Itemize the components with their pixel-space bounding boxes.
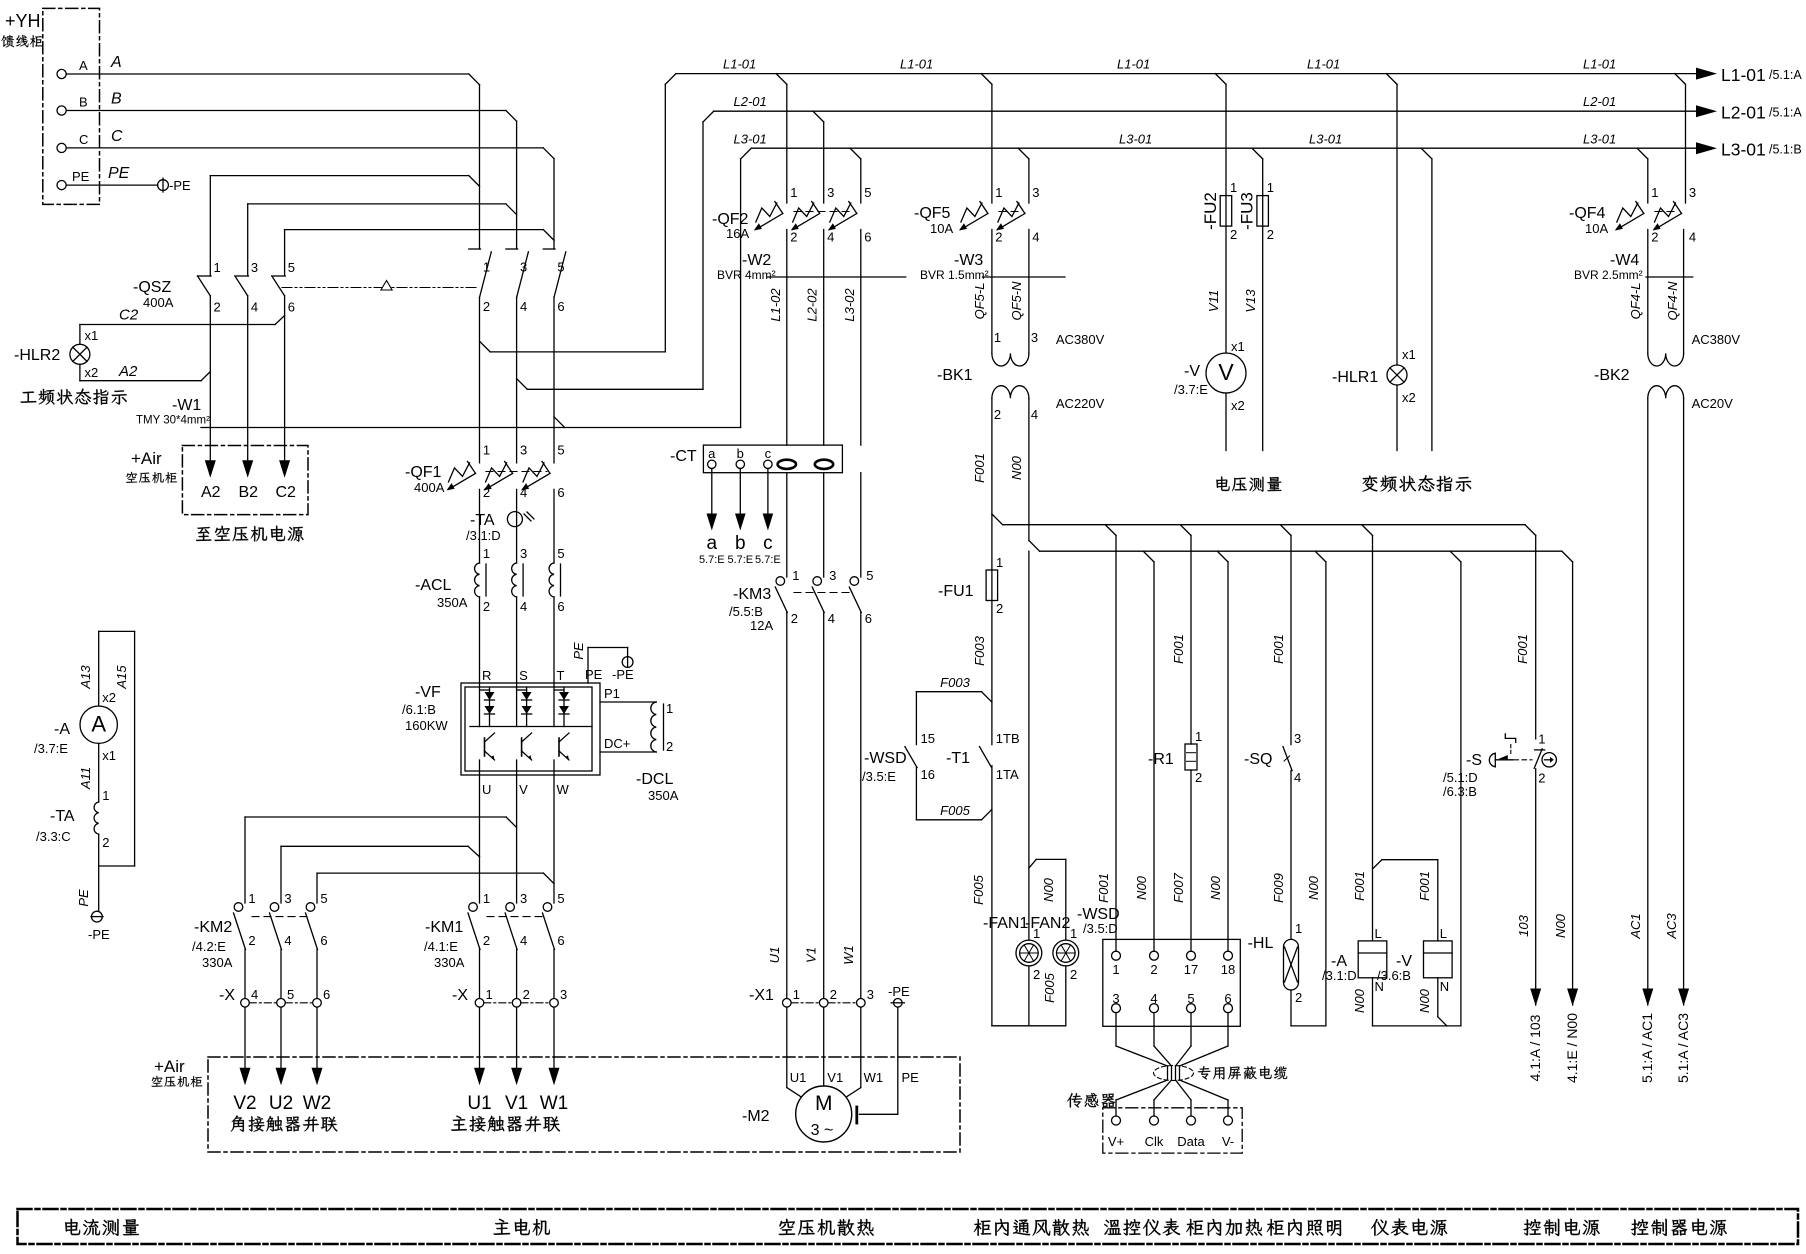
svg-text:4: 4 [284,933,291,948]
svg-text:5: 5 [557,891,564,906]
svg-text:A: A [110,54,122,71]
svg-text:-W4: -W4 [1610,252,1639,269]
svg-text:-A: -A [54,721,70,738]
svg-text:4: 4 [828,611,835,626]
svg-text:QF5-N: QF5-N [1009,281,1024,321]
svg-text:L1-01: L1-01 [1583,57,1616,72]
svg-text:3: 3 [1032,185,1039,200]
svg-text:F001: F001 [1515,634,1530,664]
svg-text:c: c [765,446,772,461]
svg-text:2: 2 [1538,770,1545,785]
svg-text:U1: U1 [790,1070,807,1085]
svg-text:QF4-L: QF4-L [1628,283,1643,320]
svg-text:-KM1: -KM1 [425,919,463,936]
svg-text:/3.5:E: /3.5:E [862,769,896,784]
svg-text:QF5-L: QF5-L [972,283,987,320]
svg-text:AC380V: AC380V [1692,332,1741,347]
svg-text:AC20V: AC20V [1692,396,1734,411]
svg-text:6: 6 [1224,991,1231,1006]
svg-text:b: b [737,446,744,461]
svg-text:17: 17 [1184,962,1198,977]
svg-text:W1: W1 [841,945,856,965]
svg-text:F001: F001 [1096,873,1111,903]
svg-text:3: 3 [284,891,291,906]
svg-text:1: 1 [996,555,1003,570]
svg-text:F001: F001 [1352,871,1367,901]
svg-text:5.7:E: 5.7:E [755,554,781,566]
svg-text:/6.3:B: /6.3:B [1443,784,1477,799]
svg-text:F001: F001 [972,453,987,483]
svg-text:-PE: -PE [169,178,191,193]
svg-text:1: 1 [1070,926,1077,941]
svg-text:2: 2 [483,299,490,314]
svg-text:1: 1 [792,568,799,583]
svg-text:BVR 4mm²: BVR 4mm² [717,268,776,282]
svg-text:L1-01: L1-01 [1117,57,1150,72]
svg-text:PE: PE [72,169,90,184]
svg-text:2: 2 [1033,967,1040,982]
svg-text:3: 3 [1294,731,1301,746]
svg-text:AC1: AC1 [1628,913,1643,939]
svg-text:+YH: +YH [5,11,41,31]
svg-text:b: b [735,533,746,554]
svg-text:-QSZ: -QSZ [133,279,171,296]
svg-text:2: 2 [996,601,1003,616]
svg-text:6: 6 [557,599,564,614]
svg-text:3: 3 [251,260,258,275]
svg-text:4: 4 [1032,230,1039,245]
svg-text:4: 4 [520,599,527,614]
svg-text:V11: V11 [1206,290,1221,312]
svg-text:-BK1: -BK1 [937,367,973,384]
svg-text:x1: x1 [1231,339,1245,354]
svg-text:400A: 400A [143,295,174,310]
svg-text:P1: P1 [604,686,620,701]
svg-text:3 ~: 3 ~ [811,1122,834,1139]
svg-text:F003: F003 [972,635,987,665]
svg-text:/4.2:E: /4.2:E [192,939,226,954]
svg-text:L1-01: L1-01 [900,57,933,72]
svg-text:F001: F001 [1171,634,1186,664]
svg-text:L: L [1440,926,1447,941]
svg-text:B: B [111,91,122,108]
svg-text:-X: -X [219,987,235,1004]
svg-text:F001: F001 [1271,634,1286,664]
svg-text:2: 2 [214,300,221,315]
svg-text:-QF5: -QF5 [914,205,951,222]
svg-text:18: 18 [1221,962,1235,977]
svg-text:4.1:E / N00: 4.1:E / N00 [1564,1013,1580,1083]
svg-text:L1-01: L1-01 [1307,57,1340,72]
svg-text:-QF4: -QF4 [1569,205,1606,222]
svg-text:1TA: 1TA [996,767,1019,782]
svg-text:L3-01: L3-01 [1309,132,1342,147]
svg-text:Clk: Clk [1145,1134,1164,1149]
svg-text:4: 4 [827,230,834,245]
svg-text:L3-01: L3-01 [1583,132,1616,147]
svg-text:4: 4 [1150,991,1157,1006]
svg-text:-W3: -W3 [954,252,983,269]
svg-text:10A: 10A [1585,221,1608,236]
svg-text:N00: N00 [1352,988,1367,1013]
svg-text:2: 2 [790,230,797,245]
svg-text:C2: C2 [119,307,139,324]
svg-text:1: 1 [1230,180,1237,195]
svg-text:/3.7:E: /3.7:E [34,741,68,756]
svg-text:A15: A15 [114,665,129,690]
svg-text:L1-01: L1-01 [723,57,756,72]
svg-text:6: 6 [557,485,564,500]
svg-text:F005: F005 [940,803,970,818]
svg-text:C: C [79,132,88,147]
svg-text:-SQ: -SQ [1244,751,1272,768]
svg-text:-QF1: -QF1 [405,464,442,481]
svg-text:-ACL: -ACL [415,577,452,594]
svg-text:A2: A2 [118,363,138,380]
svg-text:4: 4 [1294,770,1301,785]
svg-text:N00: N00 [1208,875,1223,900]
svg-text:1: 1 [214,260,221,275]
svg-text:5: 5 [288,260,295,275]
svg-text:N00: N00 [1041,877,1056,902]
svg-text:PE: PE [902,1070,920,1085]
svg-text:5: 5 [287,987,294,1002]
svg-text:-FU1: -FU1 [938,583,974,600]
svg-text:PE: PE [76,889,91,907]
svg-text:1: 1 [793,987,800,1002]
svg-text:B: B [79,95,88,110]
svg-text:AC220V: AC220V [1056,396,1105,411]
svg-text:3: 3 [827,185,834,200]
svg-text:5.7:E: 5.7:E [699,554,725,566]
svg-text:/5.1:A: /5.1:A [1769,68,1802,82]
svg-text:L2-01: L2-01 [1721,103,1766,123]
svg-text:-T1: -T1 [946,750,970,767]
svg-text:5.1:A / AC1: 5.1:A / AC1 [1639,1013,1655,1083]
svg-text:4: 4 [1031,407,1038,422]
svg-text:1: 1 [790,185,797,200]
svg-text:1: 1 [102,788,109,803]
svg-text:x2: x2 [1231,398,1245,413]
svg-text:QF4-N: QF4-N [1665,281,1680,321]
svg-text:-S: -S [1466,752,1482,769]
svg-text:330A: 330A [434,955,465,970]
svg-text:2: 2 [791,611,798,626]
svg-text:U: U [482,782,491,797]
svg-text:-TA: -TA [470,512,495,529]
svg-text:L: L [1375,926,1382,941]
svg-text:/3.7:E: /3.7:E [1174,382,1208,397]
svg-text:-PE: -PE [88,927,110,942]
svg-text:4: 4 [251,987,258,1002]
svg-text:PE: PE [571,642,586,660]
svg-text:-X: -X [452,987,468,1004]
svg-text:-M2: -M2 [742,1108,770,1125]
svg-text:x1: x1 [102,748,116,763]
svg-text:160KW: 160KW [405,718,448,733]
svg-text:1: 1 [1295,921,1302,936]
svg-text:x1: x1 [1402,347,1416,362]
svg-text:-X1: -X1 [749,987,774,1004]
svg-text:2: 2 [1195,770,1202,785]
svg-text:N00: N00 [1306,875,1321,900]
svg-text:5: 5 [866,568,873,583]
svg-text:6: 6 [864,230,871,245]
svg-text:U1: U1 [767,947,782,964]
svg-text:2: 2 [1295,990,1302,1005]
svg-text:3: 3 [1031,330,1038,345]
svg-text:1: 1 [1538,731,1545,746]
svg-text:5: 5 [557,546,564,561]
svg-text:-PE: -PE [612,667,634,682]
svg-text:5: 5 [557,443,564,458]
svg-text:2: 2 [1070,967,1077,982]
svg-text:B2: B2 [239,484,259,501]
svg-text:10A: 10A [930,221,953,236]
svg-text:1: 1 [1112,962,1119,977]
svg-text:1: 1 [994,330,1001,345]
svg-text:2: 2 [830,987,837,1002]
svg-text:W: W [557,782,570,797]
svg-text:-HLR2: -HLR2 [14,347,60,364]
svg-text:6: 6 [288,300,295,315]
svg-text:-WSD: -WSD [864,750,907,767]
svg-text:Data: Data [1177,1134,1205,1149]
svg-text:+Air: +Air [154,1057,185,1076]
svg-text:3: 3 [560,987,567,1002]
svg-text:-FAN1: -FAN1 [983,915,1028,932]
svg-text:M: M [815,1092,833,1115]
svg-text:N00: N00 [1009,455,1024,480]
svg-text:1: 1 [483,443,490,458]
svg-text:-V: -V [1184,363,1200,380]
svg-text:/5.1:B: /5.1:B [1769,143,1802,157]
svg-text:+Air: +Air [131,449,162,468]
svg-text:-KM3: -KM3 [733,586,771,603]
svg-text:103: 103 [1516,914,1531,936]
svg-text:-FAN2: -FAN2 [1025,915,1070,932]
svg-text:4.1:A / 103: 4.1:A / 103 [1527,1014,1543,1081]
svg-text:6: 6 [320,933,327,948]
svg-text:2: 2 [102,835,109,850]
svg-text:400A: 400A [414,480,445,495]
svg-text:F009: F009 [1271,873,1286,903]
svg-text:2: 2 [1267,227,1274,242]
svg-text:x1: x1 [85,328,99,343]
svg-text:T: T [557,668,565,683]
svg-text:3: 3 [1689,185,1696,200]
svg-text:V-: V- [1222,1134,1234,1149]
svg-text:5: 5 [320,891,327,906]
svg-text:C2: C2 [276,484,297,501]
svg-text:6: 6 [557,299,564,314]
svg-text:2: 2 [995,230,1002,245]
svg-text:-HLR1: -HLR1 [1332,369,1378,386]
svg-text:2: 2 [1230,227,1237,242]
svg-text:S: S [519,668,528,683]
svg-text:6: 6 [323,987,330,1002]
svg-text:F003: F003 [940,675,970,690]
svg-text:1: 1 [248,891,255,906]
svg-text:C: C [111,128,123,145]
svg-text:4: 4 [520,933,527,948]
svg-text:/4.1:E: /4.1:E [424,939,458,954]
svg-text:-CT: -CT [670,448,697,465]
svg-text:350A: 350A [437,595,468,610]
svg-text:1: 1 [666,701,673,716]
svg-text:5: 5 [557,260,564,275]
svg-text:AC380V: AC380V [1056,332,1105,347]
svg-text:-VF: -VF [415,684,441,701]
svg-text:F005: F005 [971,874,986,904]
svg-text:W1: W1 [540,1093,569,1114]
svg-text:/3.5:D: /3.5:D [1083,921,1118,936]
svg-text:4: 4 [1689,230,1696,245]
svg-text:16A: 16A [726,226,749,241]
svg-text:-W2: -W2 [742,252,771,269]
svg-text:A2: A2 [201,484,221,501]
svg-text:1: 1 [483,546,490,561]
svg-text:5: 5 [864,185,871,200]
svg-text:2: 2 [483,933,490,948]
svg-text:4: 4 [251,300,258,315]
svg-text:-R1: -R1 [1148,751,1174,768]
svg-text:V1: V1 [505,1093,528,1114]
svg-text:/6.1:B: /6.1:B [402,702,436,717]
svg-text:1: 1 [483,260,490,275]
svg-text:L2-01: L2-01 [734,94,767,109]
svg-text:/3.3:C: /3.3:C [36,829,71,844]
svg-text:1: 1 [486,987,493,1002]
svg-text:V: V [1218,359,1234,385]
svg-text:PE: PE [108,165,130,182]
svg-text:3: 3 [1112,991,1119,1006]
svg-text:L3-01: L3-01 [1119,132,1152,147]
svg-text:F005: F005 [1042,972,1057,1002]
svg-text:L3-02: L3-02 [842,288,857,322]
svg-text:2: 2 [1150,962,1157,977]
svg-text:1: 1 [1195,729,1202,744]
svg-text:16: 16 [921,767,935,782]
svg-text:-KM2: -KM2 [194,919,232,936]
svg-text:c: c [763,533,773,554]
svg-text:V: V [519,782,528,797]
svg-text:a: a [708,446,716,461]
svg-text:V13: V13 [1243,289,1258,313]
svg-text:/3.1:D: /3.1:D [1322,968,1357,983]
svg-text:5.1:A / AC3: 5.1:A / AC3 [1675,1013,1691,1083]
svg-text:6: 6 [865,611,872,626]
svg-text:2: 2 [248,933,255,948]
svg-text:3: 3 [867,987,874,1002]
svg-text:2: 2 [666,739,673,754]
svg-text:2: 2 [1651,230,1658,245]
svg-text:/5.1:A: /5.1:A [1769,106,1802,120]
svg-text:L1-02: L1-02 [768,288,783,322]
svg-text:4: 4 [520,299,527,314]
svg-text:A: A [91,712,106,737]
svg-text:1: 1 [1267,180,1274,195]
svg-text:L2-01: L2-01 [1583,94,1616,109]
svg-text:F001: F001 [1417,871,1432,901]
svg-text:2: 2 [523,987,530,1002]
svg-text:3: 3 [520,443,527,458]
svg-text:-HL: -HL [1248,935,1274,952]
svg-text:1TB: 1TB [996,731,1020,746]
svg-text:-DCL: -DCL [636,771,673,788]
svg-text:2: 2 [483,599,490,614]
svg-text:N00: N00 [1134,875,1149,900]
svg-text:N00: N00 [1417,988,1432,1013]
svg-text:2: 2 [994,407,1001,422]
svg-text:-FU3: -FU3 [1238,192,1257,230]
svg-text:N: N [1440,979,1449,994]
svg-text:3: 3 [520,546,527,561]
svg-text:330A: 330A [202,955,233,970]
svg-text:BVR 1.5mm²: BVR 1.5mm² [920,268,989,282]
svg-text:3: 3 [520,260,527,275]
svg-text:U1: U1 [467,1093,491,1114]
svg-text:R: R [482,668,491,683]
svg-text:350A: 350A [648,788,679,803]
svg-text:V2: V2 [233,1093,256,1114]
svg-text:L3-01: L3-01 [1721,140,1766,160]
svg-text:A13: A13 [78,665,93,690]
svg-text:W2: W2 [303,1093,332,1114]
svg-text:V1: V1 [804,947,819,963]
svg-text:V1: V1 [827,1070,843,1085]
svg-text:/5.1:D: /5.1:D [1443,770,1478,785]
svg-text:x2: x2 [85,365,99,380]
svg-text:W1: W1 [864,1070,884,1085]
svg-text:x2: x2 [102,690,116,705]
svg-text:1: 1 [483,891,490,906]
svg-text:3: 3 [520,891,527,906]
svg-text:-PE: -PE [888,984,910,999]
svg-text:5: 5 [1187,991,1194,1006]
svg-text:/3.6:B: /3.6:B [1377,968,1411,983]
svg-text:PE: PE [585,667,603,682]
svg-text:BVR 2.5mm²: BVR 2.5mm² [1574,268,1643,282]
svg-text:3: 3 [829,568,836,583]
svg-text:N00: N00 [1553,913,1568,938]
svg-text:F007: F007 [1171,872,1186,902]
svg-text:A: A [79,58,88,73]
svg-text:5.7:E: 5.7:E [727,554,753,566]
svg-text:TMY 30*4mm²: TMY 30*4mm² [136,415,210,427]
svg-text:15: 15 [921,731,935,746]
svg-text:DC+: DC+ [604,736,630,751]
svg-text:x2: x2 [1402,390,1416,405]
svg-text:-W1: -W1 [172,397,201,414]
svg-text:/3.1:D: /3.1:D [466,528,501,543]
svg-text:L3-01: L3-01 [734,132,767,147]
svg-text:a: a [707,533,718,554]
svg-text:6: 6 [557,933,564,948]
svg-text:AC3: AC3 [1664,913,1679,940]
svg-text:L2-02: L2-02 [805,288,820,322]
svg-text:A11: A11 [78,767,93,790]
svg-text:-TA: -TA [50,808,75,825]
svg-text:/5.5:B: /5.5:B [729,604,763,619]
svg-text:L1-01: L1-01 [1721,65,1766,85]
svg-text:12A: 12A [750,618,773,633]
svg-text:1: 1 [1651,185,1658,200]
svg-text:U2: U2 [269,1093,293,1114]
svg-text:-FU2: -FU2 [1201,192,1220,230]
svg-text:1: 1 [995,185,1002,200]
svg-text:V+: V+ [1108,1134,1124,1149]
